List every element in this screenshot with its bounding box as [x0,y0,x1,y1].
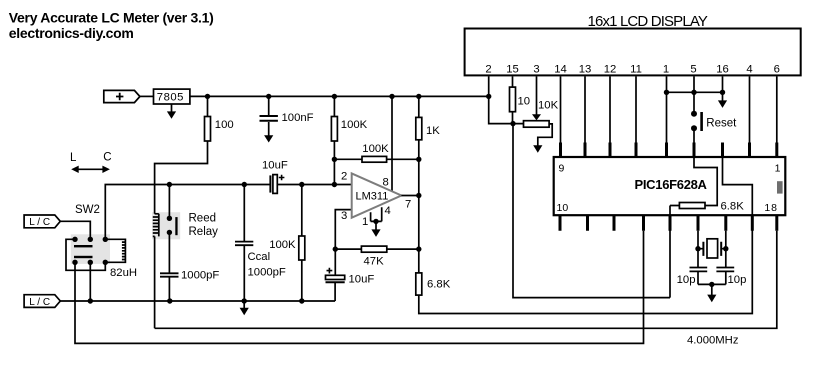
connector + (DC input) [104,90,140,102]
wire op-amp pin8 to rail [391,96,393,191]
svg-text:Reset: Reset [706,117,737,129]
svg-text:10K: 10K [538,99,559,111]
svg-text:6.8K: 6.8K [721,201,745,213]
pushbutton Reset [700,112,703,131]
svg-text:5: 5 [690,64,696,76]
svg-text:3: 3 [341,210,347,222]
connector L/C (bottom) [24,295,60,308]
wire L/C bottom rail [60,300,335,302]
resistor 100 body [205,117,211,142]
relay control wire to PIC pin18 [155,231,777,328]
resistor 100K (vertical) [333,96,335,184]
svg-text:13: 13 [579,64,592,76]
svg-text:100: 100 [215,119,234,131]
wire LCD pin2 to +5V [489,76,524,123]
wire LCD pin5 / reset branch [693,76,695,142]
ground (100nF) [268,122,270,136]
svg-text:16x1 LCD DISPLAY: 16x1 LCD DISPLAY [588,13,708,30]
ground (main) [243,301,245,308]
svg-text:Very Accurate LC Meter (ver 3.: Very Accurate LC Meter (ver 3.1) [9,10,214,26]
resistor 1K [418,96,420,273]
wire oscillator mid rail [105,185,351,240]
svg-text:12: 12 [604,64,617,76]
wire LCD pin4 [749,76,751,142]
svg-text:Reed: Reed [189,212,217,224]
wire output to PIC [419,157,753,314]
wire LCD pin3 to pot wiper [536,76,538,114]
svg-text:15: 15 [506,64,519,76]
svg-text:82uH: 82uH [110,267,137,279]
capacitor 10uF (bottom, electrolytic) [334,249,336,301]
PIC bottom pin stubs [560,215,777,231]
inductor 82uH [105,239,125,262]
regulator 7805 [154,89,190,104]
svg-text:1K: 1K [426,125,440,137]
wire +5V down to MCLR pull-up [513,124,670,298]
PIC top pin stubs [561,143,777,158]
svg-text:4.000MHz: 4.000MHz [687,335,739,347]
wire LCD pin16 [722,76,724,92]
resistor 10 (pin15) [512,76,514,123]
wire LCD pin6 [776,76,778,142]
svg-text:1000pF: 1000pF [181,269,219,281]
svg-text:L: L [70,152,77,164]
switch SW2 bracket wire [66,239,105,270]
svg-text:4: 4 [746,64,752,76]
svg-text:100nF: 100nF [282,112,314,124]
svg-text:L / C: L / C [29,217,50,228]
resistor 100 leads [155,96,208,213]
ground (LCD pin16) [722,92,724,101]
reed relay coil [153,214,159,328]
svg-text:9: 9 [559,163,565,175]
resistor 6.8K (MCLR pull-up, drawn in PIC box) [670,157,717,298]
wire LCD pin13 [584,76,586,142]
svg-text:18: 18 [764,202,778,214]
PIC pin1 gray marker [777,181,783,193]
op-amp U1 LM311 [352,173,402,217]
wire L/C top tag to SW2 [60,221,90,239]
svg-text:10p: 10p [677,274,696,286]
L/C selector double arrow [75,168,107,170]
svg-text:1: 1 [362,216,368,228]
svg-text:6: 6 [774,64,780,76]
wire reed switch branch [168,185,170,302]
svg-text:10p: 10p [728,274,747,286]
svg-text:10: 10 [518,95,531,107]
pot right end to ground [538,124,552,146]
svg-text:47K: 47K [364,256,385,268]
resistor 6.8K (output divider) [416,273,422,295]
svg-text:6.8K: 6.8K [427,279,451,291]
wire LCD pin1 [666,76,668,142]
svg-text:1: 1 [775,163,781,175]
capacitor Ccal 1000pF [243,185,245,302]
svg-text:Relay: Relay [189,226,219,238]
svg-text:7805: 7805 [157,92,184,104]
reed relay gray body [152,212,180,239]
switch SW2 contact bars [74,245,93,247]
svg-text:100K: 100K [269,239,296,251]
wire ground tie bar pins 1,5,16 [667,91,723,93]
svg-text:SW2: SW2 [75,204,100,216]
svg-text:LM311: LM311 [356,191,389,203]
capacitor 10p (left) [690,268,708,272]
svg-text:10: 10 [557,202,569,214]
svg-text:C: C [103,152,111,164]
svg-text:11: 11 [630,64,642,76]
ground (crystal) [711,284,713,295]
wire +5V rail [190,95,489,97]
svg-text:10uF: 10uF [262,160,288,172]
capacitor 1000pF (reed branch) [160,273,179,276]
crystal X1 4MHz [703,242,721,256]
wire LCD pin12 [609,76,611,142]
svg-text:100K: 100K [362,143,389,155]
op-amp pin3 wire [335,210,351,250]
switch SW2 gray body [71,234,110,264]
capacitor 10p (right) [716,268,734,272]
svg-text:L / C: L / C [29,297,50,308]
wire LCD pin14 [560,76,562,142]
wire SW2 bottom-left to PIC (long) [75,231,644,344]
reed relay contact bar [175,217,177,235]
svg-text:2: 2 [485,64,491,76]
svg-text:2: 2 [341,171,347,183]
svg-text:16: 16 [716,64,729,76]
LCD display box [465,29,801,76]
op-amp ground pins 1,4 [371,207,382,221]
wire op-amp output [401,195,418,197]
svg-text:4: 4 [385,205,391,217]
capacitor 10uF (series, electrolytic) [269,175,271,192]
resistor 100K (feedback) [334,158,418,160]
svg-text:7: 7 [405,199,411,211]
capacitor 100nF [268,96,270,116]
wire [140,95,154,97]
svg-text:1: 1 [663,64,669,76]
svg-text:10uF: 10uF [349,274,375,286]
potentiometer 10K [524,121,550,128]
svg-text:3: 3 [533,64,539,76]
crystal X1 branch wires [698,231,726,285]
svg-text:Ccal: Ccal [248,251,271,263]
svg-text:14: 14 [554,64,567,76]
resistor 47K [335,248,419,250]
svg-text:electronics-diy.com: electronics-diy.com [9,25,134,41]
connector L/C (top) [24,215,60,228]
resistor 100K (to ground) [301,185,303,302]
svg-text:100K: 100K [341,119,368,131]
svg-text:8: 8 [383,177,389,189]
ground (7805) [171,104,173,112]
wire SW2 bottom middle to L/C line [89,262,91,301]
microcontroller U2 PIC16F628A box [554,157,786,215]
svg-text:1000pF: 1000pF [248,267,286,279]
wire LCD pin11 [635,76,637,142]
svg-text:PIC16F628A: PIC16F628A [635,177,708,192]
